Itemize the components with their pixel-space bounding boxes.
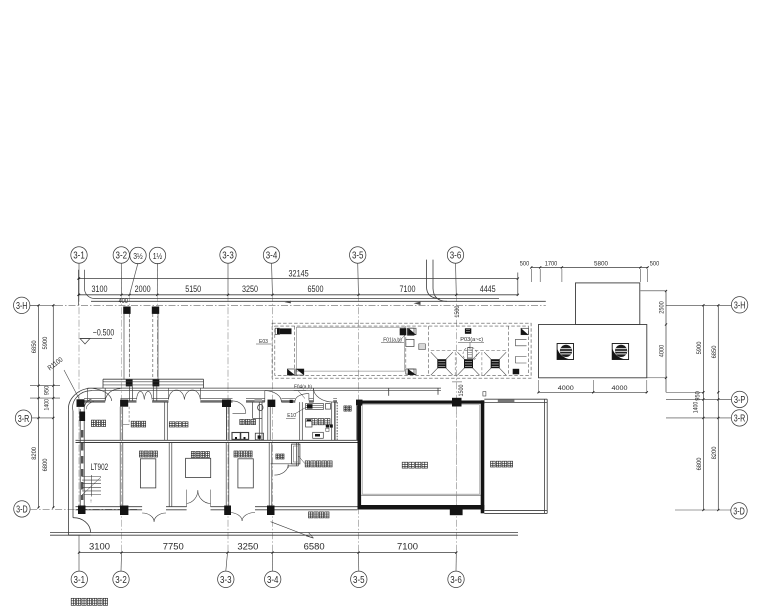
partition tool room — [120, 407, 129, 441]
right dim chain — [666, 304, 732, 511]
axis bubble 3-2 bottom — [113, 553, 129, 588]
gate post column porch b — [153, 379, 160, 386]
svg-text:−0.500: −0.500 — [93, 327, 115, 337]
fire pool centerline — [455, 404, 457, 505]
partition shaft left — [335, 402, 337, 440]
partition washroom left — [227, 407, 230, 440]
note 主要设备一览表 — [71, 598, 107, 605]
dim total 32145 — [78, 269, 519, 296]
south door B — [187, 490, 211, 507]
transformer 3 — [238, 459, 253, 488]
platform box r2 — [406, 369, 414, 374]
svg-text:3-D: 3-D — [16, 505, 28, 516]
svg-text:5150: 5150 — [185, 284, 201, 294]
fire pool wall left — [358, 400, 362, 509]
axis bubble 3-4 bottom — [265, 553, 281, 588]
axis line 3-5 — [357, 263, 360, 553]
door arc corridor — [265, 391, 282, 402]
south door A — [142, 513, 166, 522]
platform box r1 — [406, 339, 414, 346]
axis bubble 3-H left — [14, 297, 39, 313]
axis line 3-3 — [227, 263, 229, 553]
washroom toilet — [258, 404, 263, 410]
west wall — [79, 399, 94, 507]
gate line a — [124, 314, 129, 379]
column south 1 — [78, 506, 86, 515]
svg-text:6800: 6800 — [42, 458, 49, 471]
platform right bracket 1 — [516, 339, 527, 346]
axis bubble 3-P right — [731, 391, 747, 407]
equipment AHU — [306, 403, 324, 409]
platform right bracket 2 — [516, 357, 527, 364]
label leader 烟道 — [299, 456, 305, 464]
gate jamb a — [129, 386, 132, 401]
svg-text:950: 950 — [695, 391, 702, 401]
porch door leaf 1 — [105, 388, 120, 401]
laundry bottom wall — [484, 510, 547, 513]
fire pool column top — [452, 398, 462, 407]
road corner arcs — [427, 287, 448, 302]
platform fan units x3 — [431, 352, 506, 375]
axis bubble 3-6 bottom — [448, 553, 464, 588]
washroom lintel — [255, 399, 263, 402]
axis bubble 3-3 bottom — [218, 553, 234, 588]
apron stub b — [437, 388, 439, 395]
axis bubble 3-H right — [731, 297, 747, 313]
label F04(a,b) — [294, 384, 312, 398]
apron north edge — [92, 388, 441, 391]
road edge lower — [91, 300, 546, 302]
label P03(a~c) — [458, 337, 484, 349]
washroom closet wall — [253, 402, 262, 418]
axis bubble 3-1 bottom — [71, 535, 87, 587]
room label 变压器房 2 — [191, 452, 209, 458]
svg-text:3100: 3100 — [89, 542, 110, 552]
road arrow — [414, 302, 421, 305]
level mark -0.500 — [80, 327, 114, 344]
right bldg upper rect — [576, 283, 640, 325]
platform cell divider 3 — [428, 326, 430, 375]
room label 变压器房 3 — [234, 451, 252, 457]
svg-text:1400: 1400 — [693, 401, 700, 413]
svg-text:3100: 3100 — [92, 284, 108, 294]
svg-text:3-1: 3-1 — [73, 251, 85, 262]
axis line 3-2 — [120, 263, 122, 553]
svg-text:3-2: 3-2 — [116, 251, 128, 262]
gate line b — [153, 314, 158, 379]
room label 风井 — [344, 406, 351, 411]
column north 5 — [356, 400, 363, 406]
oil room door — [274, 465, 288, 476]
platform P03 circle — [463, 347, 477, 361]
svg-text:3½: 3½ — [133, 251, 143, 261]
partition transformer c — [269, 443, 272, 507]
svg-text:4000: 4000 — [659, 344, 666, 357]
washroom fixtures — [232, 433, 264, 440]
platform F01 units — [400, 328, 414, 335]
platform cell divider 2 — [405, 326, 407, 375]
platform P03 top box — [465, 328, 471, 334]
column south 4 — [267, 506, 275, 516]
column north 2 — [120, 400, 128, 407]
partition LT right — [120, 443, 123, 507]
axis bubble 3-R left — [15, 410, 53, 426]
svg-text:1500: 1500 — [458, 384, 465, 396]
south wall — [76, 507, 358, 510]
svg-text:5900: 5900 — [696, 341, 703, 354]
porch door bifold 1 — [137, 391, 153, 399]
svg-text:3-R: 3-R — [734, 414, 746, 425]
main north wall — [84, 399, 337, 402]
platform left box a — [409, 328, 416, 335]
south door C — [229, 513, 255, 522]
partition transformer a — [169, 443, 172, 507]
dim row 3100/2000/5150/3250/6500/7100/4445 — [78, 284, 519, 296]
equipment small box — [326, 404, 331, 410]
platform middle cell rect — [297, 327, 405, 371]
platform pump 2 — [296, 369, 304, 375]
svg-text:500: 500 — [520, 261, 530, 268]
left dim chain 6850/5900/950/1400/8200/6800 — [30, 304, 60, 508]
platform right box top — [521, 328, 528, 334]
platform left box b — [408, 369, 416, 375]
svg-text:6500: 6500 — [308, 284, 324, 294]
oil room walls — [271, 443, 299, 466]
svg-text:3250: 3250 — [237, 542, 258, 552]
axis bubble 3-2 top — [113, 247, 129, 263]
door arc gas room — [88, 388, 112, 401]
column north 4 — [268, 400, 276, 407]
svg-text:7100: 7100 — [400, 284, 416, 294]
svg-text:LT902: LT902 — [91, 462, 109, 472]
transformer 2 — [186, 458, 211, 477]
road edge upper — [95, 298, 500, 300]
svg-text:32145: 32145 — [289, 269, 309, 279]
svg-text:3-H: 3-H — [16, 301, 28, 312]
svg-text:F04(a,b): F04(a,b) — [294, 384, 312, 390]
partition transformer b — [226, 443, 229, 507]
wall mini column — [290, 400, 293, 403]
svg-text:1700: 1700 — [545, 261, 558, 268]
room label 工具房 — [131, 421, 146, 427]
room label LT902 — [91, 462, 109, 472]
door arc room E10 — [295, 394, 309, 401]
gate jamb b — [153, 386, 157, 401]
axis bubble 3-5 top — [350, 247, 366, 263]
door leaf leader — [271, 522, 314, 538]
label E03 — [256, 339, 271, 345]
porch outline — [103, 379, 204, 388]
laundry small box — [483, 392, 486, 396]
svg-text:4445: 4445 — [480, 284, 496, 294]
platform equipment E03 bar — [275, 328, 291, 334]
svg-text:7750: 7750 — [163, 542, 184, 552]
room label 备用房 — [169, 422, 188, 427]
svg-text:3-6: 3-6 — [450, 575, 462, 586]
shaft right wall — [356, 406, 358, 440]
room label 设备房 — [312, 419, 333, 432]
svg-text:3-5: 3-5 — [352, 251, 364, 262]
dim 1500 road — [454, 305, 461, 317]
right bldg bottom dims 4000/4000 — [537, 380, 647, 393]
porch door pair 2 — [169, 388, 201, 399]
svg-text:3-4: 3-4 — [266, 251, 278, 262]
axis bubble 3-R right — [731, 410, 747, 426]
svg-text:5800: 5800 — [594, 261, 608, 268]
bottom dim row 3100/7750/3250/6580/7100 — [78, 542, 457, 554]
stair LT902 — [82, 475, 101, 505]
svg-text:3-6: 3-6 — [450, 251, 462, 262]
equipment box B — [306, 419, 312, 427]
column south 3 — [224, 506, 231, 516]
svg-text:4000: 4000 — [558, 385, 574, 392]
platform hatch box — [419, 344, 426, 350]
flue duct — [292, 444, 300, 464]
apron west edge — [69, 411, 74, 535]
label R1100 — [47, 356, 79, 398]
room label 盥洗间 — [240, 419, 256, 424]
axis bubble 3-5 bottom — [351, 553, 367, 588]
fire pool wall right — [481, 400, 485, 513]
gate post column top a — [123, 307, 130, 314]
svg-text:3-4: 3-4 — [267, 575, 279, 586]
row divider wall — [76, 440, 358, 442]
svg-text:2500: 2500 — [659, 301, 666, 314]
fan unit 1 — [557, 344, 573, 360]
svg-text:2000: 2000 — [135, 284, 151, 294]
partition washroom right — [259, 402, 262, 440]
column south 2 — [120, 506, 128, 516]
svg-text:5900: 5900 — [42, 337, 49, 350]
apron south edge — [50, 533, 518, 536]
axis bubble 3-D right — [731, 503, 747, 519]
axis bubble 3-4 top — [263, 247, 279, 263]
dim 1500 pool — [452, 382, 465, 397]
dim 400 — [118, 296, 128, 305]
platform cell divider 4 — [508, 326, 510, 375]
room label 消防水池 — [402, 462, 427, 468]
svg-text:3-3: 3-3 — [220, 575, 232, 586]
apron stub a — [388, 388, 390, 396]
partition spare room — [165, 402, 168, 440]
fire pool column bottom — [450, 507, 463, 515]
door arc equipment room — [314, 388, 334, 402]
svg-text:8200: 8200 — [711, 446, 718, 459]
right bldg side dims 2500/4000 — [640, 290, 667, 392]
column north 1 — [77, 399, 85, 407]
label F01(a,b) — [381, 334, 406, 343]
svg-text:3-H: 3-H — [734, 301, 746, 312]
road arrow 2 — [285, 301, 291, 304]
room label 储油 — [276, 454, 284, 459]
svg-text:3-P: 3-P — [734, 395, 746, 406]
room label 变压器房 1 — [139, 451, 157, 457]
label E10 — [286, 407, 307, 419]
platform right box bottom — [513, 369, 520, 375]
axis bubble 3-6 top — [447, 247, 463, 263]
fan unit 2 — [612, 344, 628, 360]
svg-text:6580: 6580 — [304, 542, 325, 552]
room label 洗衣机房 — [491, 461, 513, 467]
washroom door — [233, 401, 246, 413]
svg-text:R1100: R1100 — [47, 356, 65, 372]
svg-text:3-3: 3-3 — [222, 251, 234, 262]
axis line 3-1 — [78, 263, 80, 506]
fire pool inner rect — [362, 405, 479, 494]
svg-text:6850: 6850 — [31, 340, 38, 353]
axis line 3-6 — [455, 263, 458, 553]
svg-text:1500: 1500 — [454, 305, 461, 317]
svg-text:3250: 3250 — [242, 284, 258, 294]
svg-text:950: 950 — [44, 385, 51, 395]
svg-text:↑: ↑ — [90, 499, 93, 505]
road west end curve — [77, 270, 94, 305]
axis line 3-4 — [272, 263, 273, 553]
svg-text:8200: 8200 — [31, 447, 38, 460]
axis bubble 3-1 top — [71, 247, 87, 263]
road centerline 3-H axis — [30, 304, 546, 306]
partition corridor left — [268, 407, 270, 440]
axis bubble 3-1/2 top — [130, 247, 146, 263]
room label 气瓶间 — [91, 420, 105, 426]
gate post column top b — [152, 307, 159, 314]
laundry top wall — [484, 399, 547, 402]
axis bubble 3-D left — [14, 501, 139, 517]
apron south junction arc — [73, 518, 91, 533]
svg-text:1½: 1½ — [153, 251, 163, 261]
room label 发电机房 — [309, 512, 330, 518]
partition equip room left — [300, 402, 303, 440]
platform dashed shelf line — [431, 349, 507, 351]
svg-text:4000: 4000 — [612, 385, 628, 392]
svg-text:6850: 6850 — [711, 345, 718, 358]
equipment box C — [313, 432, 324, 438]
svg-text:7100: 7100 — [397, 542, 418, 552]
platform inner dashed rect — [275, 326, 529, 375]
svg-text:6800: 6800 — [696, 457, 703, 470]
fire pool inner line — [361, 494, 481, 496]
svg-text:3-1: 3-1 — [74, 575, 86, 586]
svg-text:3-R: 3-R — [18, 414, 30, 425]
column north 3 — [222, 400, 231, 408]
platform pump 1 — [287, 369, 295, 375]
right bldg top dims 500/1700/5800/500 — [520, 261, 660, 282]
transformer 1 — [140, 459, 155, 488]
svg-text:1400: 1400 — [44, 399, 51, 411]
room label 发电机烟道 — [305, 461, 332, 467]
svg-text:3-2: 3-2 — [115, 575, 127, 586]
right bldg lower rect — [539, 325, 647, 378]
axis line 3-1/B — [156, 263, 158, 386]
gate post column porch a — [126, 379, 133, 386]
laundry lintel hatch — [498, 400, 515, 402]
platform outer dashed rect — [272, 323, 531, 378]
axis bubble 1-1/2 top — [149, 247, 165, 263]
svg-text:400: 400 — [118, 296, 128, 305]
svg-text:3-5: 3-5 — [353, 575, 365, 586]
road north vertical edges — [427, 260, 434, 289]
svg-text:500: 500 — [650, 261, 660, 268]
svg-text:3-D: 3-D — [733, 507, 745, 518]
platform cell divider 1 — [294, 326, 296, 375]
fire pool wall top — [358, 401, 485, 404]
axis line 3-1/2 — [130, 263, 139, 386]
partition equip room right — [332, 402, 335, 440]
laundry right wall — [544, 399, 547, 513]
apron NW corner arcs — [68, 388, 92, 411]
axis bubble 3-3 top — [220, 247, 236, 263]
fire pool wall bottom — [358, 505, 485, 510]
